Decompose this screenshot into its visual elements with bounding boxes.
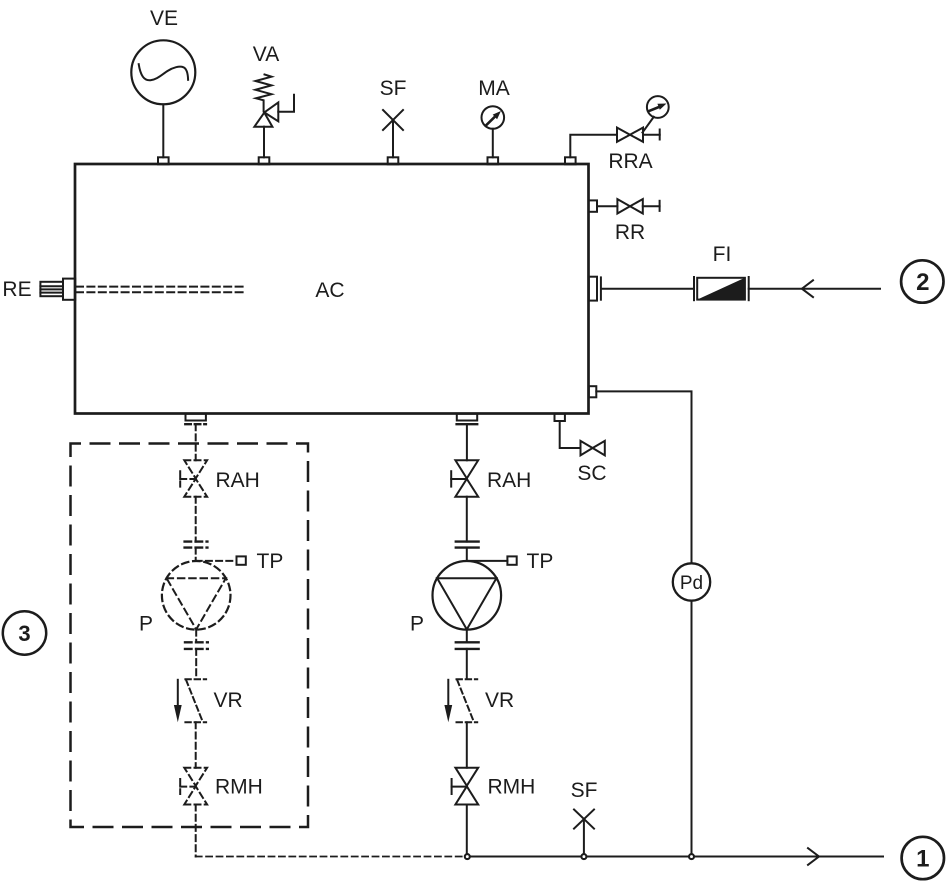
node 1 (outlet) bbox=[902, 837, 944, 879]
svg-text:FI: FI bbox=[713, 243, 732, 266]
svg-text:RAH: RAH bbox=[487, 469, 531, 492]
svg-text:SC: SC bbox=[577, 462, 606, 485]
svg-text:1: 1 bbox=[916, 845, 929, 872]
safety valve VA bbox=[253, 43, 294, 164]
valve RRA with gauge bbox=[565, 96, 669, 173]
junction node bbox=[581, 854, 586, 859]
svg-text:P: P bbox=[139, 613, 153, 636]
svg-text:2: 2 bbox=[916, 269, 929, 296]
union joint (dashed) bbox=[185, 542, 208, 561]
heating element RE bbox=[2, 278, 243, 301]
optional circuit boundary (dashed box) bbox=[71, 444, 309, 828]
filter FI inlet line bbox=[589, 277, 694, 301]
union joint bbox=[456, 642, 479, 678]
valve RMH (main) bbox=[452, 768, 536, 857]
filter FI bbox=[694, 243, 880, 300]
tank AC (accumulator vessel) bbox=[75, 164, 589, 414]
svg-text:RE: RE bbox=[2, 278, 31, 301]
vent valve SF (bottom) bbox=[571, 779, 598, 857]
check valve VR (main) bbox=[444, 679, 514, 768]
svg-text:VA: VA bbox=[253, 43, 279, 66]
node 3 (option label) bbox=[3, 611, 46, 654]
svg-text:VR: VR bbox=[485, 689, 514, 712]
svg-text:MA: MA bbox=[478, 77, 510, 100]
svg-text:TP: TP bbox=[257, 550, 284, 573]
tank bottom nozzle (main circuit) bbox=[457, 414, 478, 461]
svg-text:SF: SF bbox=[571, 779, 598, 802]
drain valve SC bbox=[555, 414, 607, 485]
svg-text:TP: TP bbox=[527, 550, 554, 573]
svg-text:Pd: Pd bbox=[680, 573, 703, 594]
svg-text:3: 3 bbox=[18, 621, 30, 646]
svg-text:P: P bbox=[410, 613, 424, 636]
pump P (main) bbox=[410, 561, 501, 642]
valve RAH (main) bbox=[451, 460, 531, 541]
svg-text:SF: SF bbox=[380, 77, 407, 100]
node 2 (inlet) bbox=[901, 260, 943, 302]
svg-text:RRA: RRA bbox=[608, 150, 652, 173]
pump P (optional, dashed) bbox=[139, 561, 231, 642]
valve RR bbox=[589, 199, 660, 244]
svg-text:RMH: RMH bbox=[215, 776, 263, 799]
svg-text:VE: VE bbox=[150, 7, 178, 30]
svg-text:RAH: RAH bbox=[216, 469, 260, 492]
valve RAH (optional, dashed) bbox=[180, 460, 260, 541]
tank bottom nozzle (optional circuit) bbox=[185, 414, 206, 461]
main outlet line bbox=[468, 848, 884, 865]
test point TP (optional) bbox=[196, 550, 284, 573]
differential pressure gauge Pd bbox=[673, 563, 710, 600]
svg-text:RR: RR bbox=[615, 221, 645, 244]
pressure line to Pd bbox=[589, 386, 692, 856]
union joint (dashed) bbox=[185, 642, 208, 678]
svg-text:RMH: RMH bbox=[488, 776, 536, 799]
svg-text:AC: AC bbox=[315, 279, 344, 302]
union joint bbox=[456, 542, 479, 561]
svg-text:VR: VR bbox=[214, 689, 243, 712]
junction node bbox=[689, 854, 694, 859]
junction node bbox=[465, 854, 470, 859]
test point TP (main) bbox=[467, 550, 554, 573]
pressure gauge MA bbox=[478, 77, 510, 164]
valve RMH (optional, dashed) bbox=[180, 768, 263, 857]
check valve VR (optional) bbox=[174, 679, 243, 768]
vent valve SF (top) bbox=[380, 77, 407, 164]
dashed return connection bbox=[196, 856, 464, 858]
expansion vessel VE bbox=[131, 7, 195, 164]
